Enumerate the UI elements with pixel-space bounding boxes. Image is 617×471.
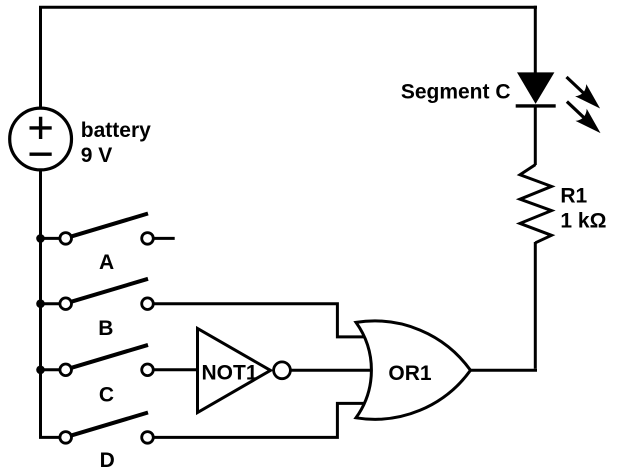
LED light arrow 1	[567, 77, 601, 109]
wire switch C to NOT1 input	[153, 368, 197, 371]
wire right bus lower	[534, 242, 537, 369]
switch D	[60, 413, 153, 444]
switch A	[60, 214, 153, 245]
svg-text:R1: R1	[560, 184, 587, 207]
svg-text:9 V: 9 V	[81, 144, 113, 167]
svg-text:A: A	[99, 251, 114, 274]
battery B1	[10, 108, 72, 170]
switch C	[60, 345, 153, 376]
wire left bus lower	[41, 171, 61, 438]
svg-text:B: B	[98, 317, 113, 340]
wire switch B to OR1 top input	[153, 304, 366, 337]
wire right bus upper	[534, 6, 537, 74]
svg-text:Segment C: Segment C	[401, 81, 511, 104]
svg-text:1 kΩ: 1 kΩ	[560, 210, 606, 233]
LED light arrow 2	[567, 102, 601, 134]
wire LED to resistor	[534, 106, 537, 165]
switch B	[60, 279, 153, 310]
svg-text:C: C	[99, 384, 114, 407]
wire stub to switch B	[41, 302, 61, 305]
wire stub to switch C	[41, 368, 61, 371]
svg-text:D: D	[100, 449, 115, 471]
wire OR1 output	[470, 369, 537, 372]
LED D1 Segment C	[516, 72, 556, 106]
wire NOT1 output to OR1 middle input	[290, 369, 372, 372]
wire switch D to OR1 bottom input	[153, 403, 366, 437]
wire stub right of switch A	[153, 237, 174, 240]
wire left bus upper	[39, 7, 42, 107]
resistor R1	[520, 165, 552, 243]
node junction C	[36, 366, 45, 375]
wire top	[39, 6, 537, 9]
svg-text:battery: battery	[81, 119, 151, 142]
node junction A	[36, 234, 45, 243]
svg-text:OR1: OR1	[388, 362, 432, 385]
or-gate OR1	[356, 321, 471, 419]
node junction B	[36, 299, 45, 308]
inverter NOT1	[198, 329, 291, 413]
svg-text:NOT1: NOT1	[202, 361, 258, 384]
wire stub to switch A	[41, 237, 61, 240]
